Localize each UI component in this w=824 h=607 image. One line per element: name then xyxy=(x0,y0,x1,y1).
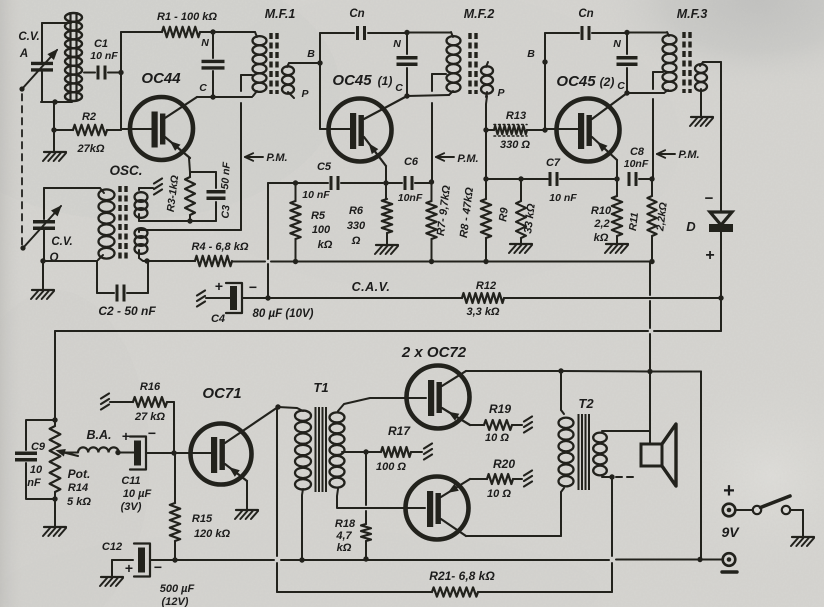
svg-text:C5: C5 xyxy=(317,161,332,173)
svg-text:P.M.: P.M. xyxy=(266,152,287,164)
svg-text:kΩ: kΩ xyxy=(337,542,352,554)
svg-text:R17: R17 xyxy=(388,424,411,438)
wire xyxy=(407,32,451,34)
svg-text:C: C xyxy=(199,82,207,94)
electrolytic C12 xyxy=(100,541,195,607)
capacitor C1 xyxy=(84,38,121,80)
svg-text:+: + xyxy=(215,278,223,294)
svg-text:kΩ: kΩ xyxy=(594,232,609,244)
wire xyxy=(53,102,55,130)
wire top line xyxy=(466,368,701,559)
wire xyxy=(320,32,354,34)
wire xyxy=(121,31,162,33)
resistor R9 xyxy=(497,179,538,243)
resistor R17 xyxy=(366,424,432,473)
wire xyxy=(627,32,667,34)
resistor R6 xyxy=(347,199,392,247)
svg-text:R15: R15 xyxy=(192,513,213,525)
wire bias line xyxy=(486,176,548,181)
svg-text:M.F.2: M.F.2 xyxy=(464,7,495,21)
svg-text:(12V): (12V) xyxy=(162,596,189,607)
svg-text:4,7: 4,7 xyxy=(335,530,352,542)
svg-text:(1): (1) xyxy=(378,74,393,88)
svg-text:10 nF: 10 nF xyxy=(302,189,330,201)
svg-text:−: − xyxy=(154,559,162,575)
svg-text:N: N xyxy=(613,38,621,50)
svg-text:R2: R2 xyxy=(82,111,96,123)
svg-text:2,2: 2,2 xyxy=(593,218,609,230)
svg-text:−: − xyxy=(705,190,714,207)
wire xyxy=(210,94,252,99)
resistor R11 xyxy=(627,179,670,262)
svg-text:OC45: OC45 xyxy=(332,72,372,89)
oscillator transformer xyxy=(98,163,153,262)
wire xyxy=(43,260,97,262)
capacitor C9 xyxy=(15,420,55,499)
svg-text:nF: nF xyxy=(27,477,41,489)
svg-text:9V: 9V xyxy=(721,524,740,540)
neutralizing capacitor C-N1 xyxy=(199,32,224,97)
electrolytic C4 xyxy=(197,278,314,325)
ground xyxy=(605,244,628,253)
svg-text:M.F.3: M.F.3 xyxy=(677,7,708,21)
svg-text:10: 10 xyxy=(30,464,43,476)
resistor R15 xyxy=(170,453,231,563)
svg-text:R21- 6,8 kΩ: R21- 6,8 kΩ xyxy=(429,569,495,583)
neutralizing capacitor C-N3 xyxy=(613,30,637,93)
svg-text:P: P xyxy=(497,87,505,99)
svg-text:(3V): (3V) xyxy=(121,501,142,513)
transistor OC72 lower xyxy=(406,477,471,540)
svg-text:C: C xyxy=(395,82,403,94)
wire P.M. feed 2 xyxy=(431,74,433,182)
capacitor C6 xyxy=(386,156,432,204)
wire xyxy=(624,90,664,95)
wire AGC drop xyxy=(265,183,270,301)
wire xyxy=(41,99,72,104)
resistor R16 xyxy=(101,381,177,456)
IF transformer M.F.1 xyxy=(241,7,315,100)
P.M. arrow 1 xyxy=(245,152,288,164)
battery plus terminal xyxy=(723,480,736,516)
svg-text:+: + xyxy=(723,480,735,502)
svg-text:R10: R10 xyxy=(591,205,612,217)
svg-text:Cn: Cn xyxy=(578,8,593,20)
svg-text:N: N xyxy=(201,37,209,49)
svg-text:C6: C6 xyxy=(404,156,419,168)
svg-text:10 Ω: 10 Ω xyxy=(487,488,511,500)
svg-text:10 Ω: 10 Ω xyxy=(485,432,509,444)
svg-text:OC44: OC44 xyxy=(141,70,181,87)
wire xyxy=(466,492,561,536)
resistor R5 xyxy=(290,183,332,262)
svg-text:C8: C8 xyxy=(630,146,645,158)
svg-text:OSC.: OSC. xyxy=(109,163,142,178)
resistor R13 xyxy=(486,110,545,151)
supply rail xyxy=(232,259,655,264)
resistor R20 xyxy=(470,457,532,500)
wire emitter OC45(1) xyxy=(383,166,388,199)
svg-text:R20: R20 xyxy=(493,457,515,471)
transistor OC71 xyxy=(174,385,278,485)
wire P.M. feed 3 xyxy=(649,72,654,182)
svg-text:+: + xyxy=(122,428,130,444)
svg-text:R14: R14 xyxy=(68,482,88,494)
svg-text:R1 - 100 kΩ: R1 - 100 kΩ xyxy=(157,11,217,23)
antenna ferrite rod xyxy=(71,12,77,100)
svg-text:330 Ω: 330 Ω xyxy=(500,139,530,151)
svg-text:27kΩ: 27kΩ xyxy=(77,143,105,155)
ground xyxy=(235,481,258,519)
svg-text:C9: C9 xyxy=(31,441,46,453)
wire P lead MF2 xyxy=(483,96,488,133)
resistor R3 xyxy=(165,172,195,221)
svg-text:10 nF: 10 nF xyxy=(549,192,577,204)
svg-text:10nF: 10nF xyxy=(624,158,649,170)
ground xyxy=(31,258,54,299)
transistor OC72 upper xyxy=(401,344,470,429)
wire emitter OC45(2) xyxy=(614,160,619,196)
wire speaker dash xyxy=(616,476,637,478)
ground xyxy=(43,130,66,161)
svg-text:R19: R19 xyxy=(489,402,511,416)
svg-text:OC45: OC45 xyxy=(556,73,596,90)
wire xyxy=(404,93,449,98)
svg-text:R9: R9 xyxy=(497,206,511,222)
svg-text:R5: R5 xyxy=(311,210,326,222)
wire secondary to diode xyxy=(703,61,721,63)
resistor R2 xyxy=(51,111,121,155)
wire xyxy=(44,187,100,189)
battery minus terminal xyxy=(721,524,740,572)
output transformer T2 xyxy=(559,371,651,492)
ground xyxy=(509,244,532,253)
resistor R4 xyxy=(192,241,249,266)
svg-text:10 µF: 10 µF xyxy=(123,488,152,500)
ground xyxy=(375,245,398,254)
svg-text:50 nF: 50 nF xyxy=(219,161,233,190)
svg-text:C1: C1 xyxy=(94,38,108,50)
transistor OC45(2) xyxy=(545,73,627,162)
capacitor Cn 1 xyxy=(349,8,407,40)
P.M. arrow 2 xyxy=(436,153,479,165)
svg-text:C3: C3 xyxy=(220,205,233,219)
wire C5 line xyxy=(268,63,328,186)
C.A.V. line xyxy=(268,280,462,298)
wire xyxy=(609,474,614,592)
svg-text:kΩ: kΩ xyxy=(318,239,333,251)
svg-text:10nF: 10nF xyxy=(398,192,423,204)
IF transformer M.F.3 xyxy=(653,7,707,95)
svg-text:Cn: Cn xyxy=(349,8,364,20)
svg-text:C.V.: C.V. xyxy=(51,236,72,248)
svg-text:3,3 kΩ: 3,3 kΩ xyxy=(466,306,499,318)
hatch mark osc xyxy=(154,179,162,195)
variable capacitor C.V. O xyxy=(20,188,72,264)
svg-text:10 nF: 10 nF xyxy=(90,50,118,62)
wire xyxy=(42,22,71,24)
negative rail xyxy=(175,556,722,562)
switch xyxy=(736,496,804,536)
svg-text:C12: C12 xyxy=(102,541,122,553)
svg-text:27 kΩ: 27 kΩ xyxy=(134,411,165,423)
svg-text:Pot.: Pot. xyxy=(68,467,91,481)
electrolytic C11 xyxy=(121,425,174,513)
svg-text:5 kΩ: 5 kΩ xyxy=(67,496,91,508)
svg-text:D: D xyxy=(686,219,696,234)
wire xyxy=(319,33,321,129)
svg-text:B.A.: B.A. xyxy=(87,428,112,442)
capacitor C2 xyxy=(97,261,156,318)
svg-text:C7: C7 xyxy=(546,157,561,169)
svg-text:T2: T2 xyxy=(578,396,594,411)
svg-text:330: 330 xyxy=(347,220,366,232)
resistor R12 xyxy=(462,280,721,318)
svg-text:T1: T1 xyxy=(313,380,328,395)
svg-text:C2 - 50 nF: C2 - 50 nF xyxy=(98,304,156,318)
svg-text:−: − xyxy=(148,425,156,441)
wire emitter OC44 xyxy=(189,158,216,188)
capacitor C5 xyxy=(302,161,383,201)
capacitor Cn 2 xyxy=(578,8,627,40)
svg-text:O: O xyxy=(50,252,59,264)
svg-text:N: N xyxy=(393,38,401,50)
svg-text:C.A.V.: C.A.V. xyxy=(352,280,391,294)
driver transformer T1 xyxy=(278,380,426,560)
ground xyxy=(43,499,66,536)
svg-text:500 µF: 500 µF xyxy=(160,583,195,595)
svg-text:(2): (2) xyxy=(600,75,615,89)
volume potentiometer R14 xyxy=(50,417,92,508)
svg-text:80 µF (10V): 80 µF (10V) xyxy=(253,308,314,320)
wire P.M. feed 1 xyxy=(140,75,241,230)
svg-text:OC71: OC71 xyxy=(202,385,241,402)
svg-text:R13: R13 xyxy=(506,110,526,122)
gang dashed link xyxy=(21,94,23,246)
ground xyxy=(690,95,713,126)
detector line xyxy=(55,298,721,331)
resistor R8 xyxy=(458,131,491,262)
resistor R18 xyxy=(335,518,371,558)
svg-text:R18: R18 xyxy=(335,518,356,530)
resistor R19 xyxy=(470,402,532,444)
svg-text:B: B xyxy=(527,48,535,60)
transistor OC44 xyxy=(121,70,213,160)
antenna coil L1 xyxy=(65,13,82,101)
svg-text:P.M.: P.M. xyxy=(678,149,699,161)
wire xyxy=(144,258,195,263)
svg-text:C4: C4 xyxy=(211,313,225,325)
variable capacitor C.V. A xyxy=(18,31,58,102)
resistor R10 xyxy=(591,196,622,244)
resistor R7 xyxy=(426,179,453,261)
svg-text:M.F.1: M.F.1 xyxy=(265,7,296,21)
wire collector node xyxy=(275,404,280,409)
P.M. arrow 3 xyxy=(657,149,700,161)
diode D xyxy=(686,62,733,301)
wire xyxy=(41,23,43,63)
wire xyxy=(545,32,579,34)
wire xyxy=(363,449,368,524)
svg-text:−: − xyxy=(249,279,257,295)
neutralizing capacitor C-N2 xyxy=(393,30,417,96)
svg-text:C: C xyxy=(617,80,625,92)
svg-text:R12: R12 xyxy=(476,280,496,292)
svg-text:R4 - 6,8 kΩ: R4 - 6,8 kΩ xyxy=(192,241,249,253)
svg-text:Ω: Ω xyxy=(351,235,361,247)
wire xyxy=(139,220,190,222)
svg-text:+: + xyxy=(125,560,133,576)
svg-text:C11: C11 xyxy=(121,475,140,487)
wire rail drop xyxy=(649,262,651,444)
svg-text:120 kΩ: 120 kΩ xyxy=(194,528,231,540)
svg-text:R11: R11 xyxy=(627,212,641,232)
capacitor C3 xyxy=(187,161,233,224)
wire xyxy=(542,33,547,133)
svg-text:+: + xyxy=(705,247,714,264)
svg-text:P.M.: P.M. xyxy=(457,153,478,165)
wire xyxy=(289,60,323,65)
svg-text:C.V.: C.V. xyxy=(18,31,39,43)
loudspeaker xyxy=(641,424,676,486)
svg-text:A: A xyxy=(19,48,28,60)
svg-text:B: B xyxy=(307,48,315,60)
capacitor C8 xyxy=(624,146,652,186)
capacitor C7 xyxy=(546,157,614,204)
resistor R1 xyxy=(157,11,255,37)
svg-text:100: 100 xyxy=(312,224,331,236)
svg-text:R16: R16 xyxy=(140,381,161,393)
svg-text:2 x OC72: 2 x OC72 xyxy=(401,344,467,361)
ground xyxy=(791,537,814,546)
svg-text:R6: R6 xyxy=(349,205,364,217)
svg-text:P: P xyxy=(301,88,309,100)
wire xyxy=(54,331,56,420)
transistor OC45(1) xyxy=(320,72,407,166)
wire xyxy=(118,32,123,130)
svg-text:100 Ω: 100 Ω xyxy=(376,461,406,473)
IF transformer M.F.2 xyxy=(432,7,535,99)
resistor R21 xyxy=(277,407,612,597)
audio coil B.A. xyxy=(60,428,134,455)
